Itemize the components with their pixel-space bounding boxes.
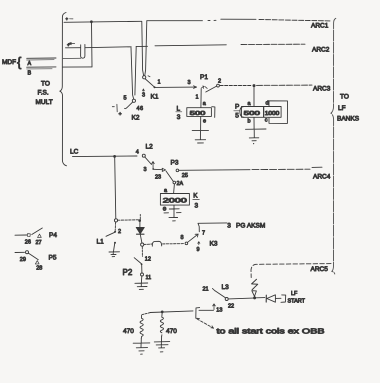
switch P1 — [196, 74, 222, 101]
svg-text:PG AKSM: PG AKSM — [236, 223, 265, 230]
switch P5 — [15, 251, 57, 272]
wire node down to P/5 coil — [253, 87, 255, 106]
switch L3 — [203, 284, 254, 309]
wire LC junction down to L1 — [115, 158, 116, 219]
svg-text:3: 3 — [188, 80, 191, 86]
label ARC4 — [313, 174, 331, 181]
svg-text:e: e — [163, 206, 167, 213]
relay contact K1 hairpin wires — [142, 21, 147, 76]
start node junction — [253, 296, 256, 299]
relay coil P/5 500 1000 — [234, 101, 281, 125]
ground under P/5 — [246, 117, 267, 144]
svg-text:L3: L3 — [222, 284, 230, 291]
svg-text:500: 500 — [244, 111, 260, 117]
svg-text:1: 1 — [196, 95, 199, 101]
switch L2 — [136, 144, 155, 174]
svg-text:26: 26 — [25, 240, 31, 246]
svg-text:ARC4: ARC4 — [313, 174, 331, 181]
svg-text:3: 3 — [227, 223, 231, 230]
svg-text:TO: TO — [340, 94, 349, 101]
wire bottom resistor bus — [142, 311, 193, 315]
wire L1 to diode junction — [118, 215, 141, 222]
switch L1 — [97, 219, 122, 257]
svg-text:22: 22 — [228, 303, 234, 309]
svg-text:K1: K1 — [151, 94, 159, 101]
label ARC1 — [311, 23, 329, 30]
relay contact K1 — [142, 76, 161, 101]
wire 2A down to K/3 coil — [173, 184, 176, 194]
diode D1 — [136, 222, 144, 243]
svg-text:ARC5: ARC5 — [311, 266, 329, 273]
wire P3 to ARC4 — [179, 167, 322, 170]
svg-text:3: 3 — [142, 93, 145, 99]
arrow from ARC5 down to start node — [252, 279, 258, 296]
wire A line extension — [63, 57, 81, 59]
svg-text:500: 500 — [190, 111, 206, 117]
wire line 2 continuation (to ARC2) — [85, 44, 305, 48]
label TO F.S. MULT — [36, 81, 53, 107]
ground under R1 — [133, 338, 150, 354]
svg-text:+: + — [67, 43, 70, 48]
svg-text:c: c — [265, 118, 268, 124]
wire ARC5 dashed — [251, 264, 331, 278]
switch P3 — [154, 160, 188, 188]
svg-text:2: 2 — [218, 79, 221, 85]
relay coil L/3 500 — [176, 101, 215, 125]
switch K3 — [181, 231, 218, 254]
svg-text:470: 470 — [166, 328, 177, 335]
svg-text:K: K — [193, 193, 198, 200]
svg-text:K3: K3 — [210, 241, 218, 248]
resistor R1 470 — [123, 315, 143, 338]
relay contact K2 hairpin wires — [131, 47, 136, 99]
resistor R2 470 — [160, 313, 177, 336]
svg-text:25: 25 — [182, 173, 188, 179]
wire K1 to P1 with arrow 3 — [155, 80, 197, 88]
svg-text:LF: LF — [338, 105, 346, 112]
crossover loop joining A line to line 2 — [81, 45, 85, 59]
svg-text:A: A — [28, 61, 32, 67]
svg-text:b: b — [248, 119, 251, 125]
svg-text:1000: 1000 — [265, 111, 280, 117]
svg-text:29: 29 — [20, 257, 26, 263]
svg-text:P3: P3 — [171, 160, 179, 167]
svg-text:27: 27 — [36, 240, 42, 246]
wire branch 13 with up arrow — [196, 304, 223, 319]
svg-text:ARC1: ARC1 — [311, 23, 329, 30]
svg-text:LF: LF — [291, 291, 298, 297]
svg-text:P2: P2 — [123, 268, 133, 277]
svg-text:8: 8 — [181, 235, 184, 241]
svg-text:F.S.: F.S. — [38, 90, 49, 97]
svg-text:P: P — [235, 104, 239, 111]
dashed annotation leader to start coils note — [197, 319, 325, 336]
svg-text:28: 28 — [36, 266, 42, 272]
relay coil K/3 2000 — [160, 188, 199, 213]
ground under K/3 — [164, 205, 181, 221]
ground under R2 — [154, 337, 169, 352]
label TO LF BANKS — [337, 94, 360, 123]
svg-text:{: { — [17, 55, 22, 70]
svg-text:5: 5 — [235, 113, 239, 120]
svg-text:L2: L2 — [146, 144, 154, 151]
switch P4 — [15, 228, 57, 246]
svg-text:3: 3 — [144, 167, 147, 173]
svg-text:3: 3 — [177, 114, 181, 121]
svg-text:23: 23 — [155, 175, 161, 181]
svg-text:B: B — [28, 71, 32, 77]
switch P2 — [123, 243, 152, 289]
relay contact K2 — [112, 96, 143, 122]
wire K3 contact 7 up and right to PG AKSM — [198, 223, 265, 232]
wire wrap from d to c around coil — [269, 101, 288, 124]
svg-text:L1: L1 — [97, 239, 105, 246]
svg-text:MDF: MDF — [2, 59, 16, 66]
wire top feed line 1 (to ARC1) — [64, 17, 331, 23]
label ARC5 — [311, 266, 329, 273]
MDF line A — [27, 58, 56, 67]
svg-text:21: 21 — [203, 287, 209, 293]
svg-text:3: 3 — [195, 203, 199, 210]
svg-text:ARC3: ARC3 — [313, 86, 331, 93]
svg-text:K2: K2 — [132, 115, 140, 122]
MDF line B — [27, 67, 56, 77]
svg-text:LC: LC — [70, 149, 79, 156]
svg-text:P4: P4 — [49, 232, 57, 239]
svg-text:2000: 2000 — [163, 197, 188, 204]
svg-text:4: 4 — [136, 150, 139, 156]
svg-text:12: 12 — [145, 256, 151, 262]
svg-text:BANKS: BANKS — [337, 116, 360, 123]
svg-text:e: e — [203, 119, 206, 125]
ground under L/3 — [192, 116, 208, 143]
junction node on line 1 — [90, 20, 93, 23]
svg-text:+: + — [66, 17, 69, 22]
svg-text:2: 2 — [118, 229, 121, 235]
wire B extension to vertical — [63, 66, 92, 68]
svg-text:P5: P5 — [49, 255, 57, 262]
svg-text:to all start cols ex OBB: to all start cols ex OBB — [217, 327, 325, 336]
svg-text:ARC2: ARC2 — [312, 47, 330, 54]
svg-text:7: 7 — [202, 231, 205, 237]
label ARC3 — [313, 86, 331, 93]
right group bracket to LF banks — [331, 18, 336, 274]
wire LC line — [70, 149, 137, 158]
svg-text:470: 470 — [123, 328, 134, 335]
svg-text:6: 6 — [140, 106, 143, 112]
svg-text:9: 9 — [197, 247, 200, 253]
wire node to diode D2 and LF START — [256, 291, 305, 304]
label MDF — [2, 55, 22, 70]
wire P1 pivot down to L/3 coil — [200, 89, 202, 108]
svg-text:START: START — [288, 298, 306, 304]
svg-text:13: 13 — [216, 308, 222, 314]
svg-text:5: 5 — [124, 96, 127, 102]
svg-text:d: d — [266, 101, 269, 107]
label ARC2 — [312, 47, 330, 54]
svg-text:11: 11 — [146, 275, 152, 281]
svg-text:+: + — [119, 112, 122, 118]
left group bracket — [60, 13, 67, 166]
svg-text:1: 1 — [158, 80, 161, 86]
wire P1 to node (ARC3 run) — [220, 84, 312, 87]
wire P2 to K3 with connector hump — [144, 241, 184, 246]
wire vertical from node down to B line — [91, 22, 94, 67]
svg-text:L: L — [177, 106, 181, 113]
wire line 2 left stub with + marker — [66, 42, 81, 48]
svg-text:TO: TO — [41, 81, 50, 88]
svg-text:P1: P1 — [200, 74, 208, 81]
svg-text:MULT: MULT — [36, 99, 53, 106]
svg-text:2A: 2A — [177, 181, 184, 187]
